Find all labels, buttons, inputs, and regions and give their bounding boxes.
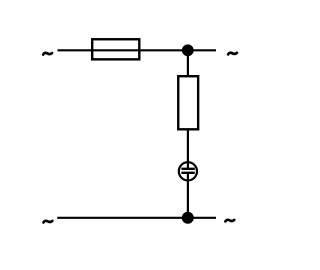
wire bottom line N <box>57 217 216 219</box>
node junction top <box>182 44 194 56</box>
node junction bottom <box>182 212 194 224</box>
wire top line L <box>58 49 217 51</box>
AC terminal ~ bottom right <box>225 220 234 222</box>
AC terminal ~ bottom left <box>43 221 52 223</box>
resistor R1 <box>178 76 198 129</box>
wire vertical branch <box>187 50 189 218</box>
surge arrester (gas discharge tube) F2 <box>179 162 197 182</box>
AC terminal ~ top right <box>228 53 237 55</box>
fuse F1 <box>92 39 139 59</box>
AC terminal ~ top left <box>43 53 52 55</box>
